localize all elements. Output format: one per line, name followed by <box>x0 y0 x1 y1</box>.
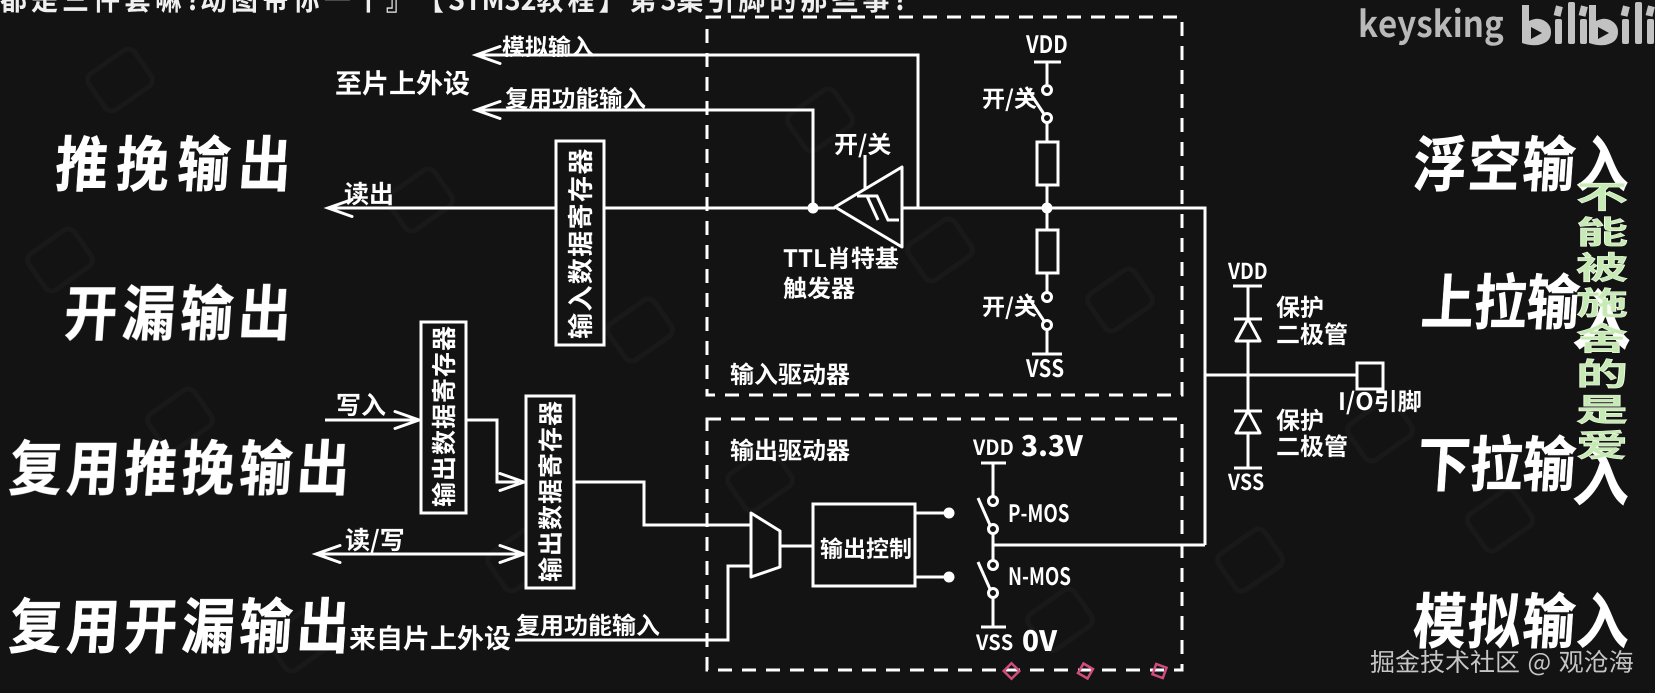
label 推挽输出 <box>55 135 289 192</box>
VSS rail symbol (protection) <box>1234 467 1262 470</box>
label 开漏输出 <box>65 284 289 341</box>
green vertical caption 不能被施舍的是爱 <box>1577 183 1627 459</box>
label 下拉输(入) <box>1418 434 1577 491</box>
label TTL肖特基 <box>784 247 899 270</box>
label 保护 (upper) <box>1276 296 1322 319</box>
arrowhead 读出 <box>328 200 352 217</box>
diode D1 (upper protection 保护二极管) <box>1234 319 1262 341</box>
resistor R1 (pull-up) <box>1037 142 1058 185</box>
label 输出数据寄存器 (box2 rotated) <box>538 401 562 581</box>
clipped video title (top edge) <box>0 0 906 13</box>
wire: box2 to mux input <box>574 482 751 525</box>
I/O pin pad square <box>1357 363 1383 389</box>
label 写入 <box>338 393 386 416</box>
selection handle diamond 1 <box>1004 663 1167 679</box>
output data register box 1 (输出数据寄存器) <box>421 322 466 513</box>
input driver dashed box <box>707 17 1182 395</box>
arrowhead into box2 <box>500 474 524 491</box>
selection handle diamond 2 <box>1078 663 1093 678</box>
label 读出 <box>345 182 392 206</box>
power label VSS (output stage) <box>976 634 1013 650</box>
junction dot: schmitt output / AF input node <box>808 203 819 214</box>
power label VDD (protection) <box>1228 263 1267 279</box>
wire R1 to pad node <box>1046 185 1049 230</box>
label 输出驱动器 <box>731 438 850 461</box>
label 读/写 <box>346 528 403 554</box>
VDD rail symbol (output stage) <box>981 463 1006 496</box>
wire: N-MOS to VSS <box>992 597 995 627</box>
wire: pad net from schmitt input to I/O column <box>902 208 1205 545</box>
selection handle diamond 3 <box>1152 664 1166 678</box>
diode D2 (lower protection 保护二极管) <box>1247 375 1250 411</box>
VSS rail symbol (pull-down) <box>1032 353 1062 356</box>
label 输入驱动器 <box>731 362 850 385</box>
value label 3.3V <box>1022 435 1083 457</box>
bilibili logo <box>1522 2 1655 45</box>
wire S1 to R1 <box>1046 122 1049 142</box>
label 输入数据寄存器 (rotated) <box>568 149 593 338</box>
label 触发器 <box>784 276 855 299</box>
power label VDD (pull-up) <box>1026 35 1067 53</box>
hysteresis symbol inside U1 <box>857 196 899 220</box>
arrowhead 读/写 right <box>500 546 524 563</box>
output driver dashed box <box>707 419 1182 670</box>
arrowhead analog input <box>476 47 500 64</box>
label 二极管 (lower) <box>1277 434 1347 457</box>
label 复用功能输入 (bottom) <box>517 613 660 636</box>
label 复用推挽输出 <box>9 439 347 496</box>
label 开/关 (S2) <box>983 295 1036 319</box>
resistor R2 (pull-down) <box>1037 230 1058 273</box>
VDD rail symbol (pull-up) <box>1034 62 1061 84</box>
arrowhead 读/写 left <box>316 546 340 563</box>
VSS rail symbol (output stage) <box>981 626 1006 629</box>
wire: analog input (模拟输入) <box>478 55 918 208</box>
power label VSS (pull-down) <box>1026 359 1063 377</box>
wire: P-MOS to output node <box>992 533 995 561</box>
wire: alternate function input to peripherals (复用功能输入) <box>478 110 813 208</box>
wire: gate drive to N-MOS <box>915 576 946 579</box>
schmitt trigger U1 (TTL肖特基触发器) <box>835 167 902 247</box>
label 来自片上外设 <box>350 625 511 651</box>
wire: I/O pad horizontal <box>1205 374 1357 377</box>
label 上拉输(入) <box>1422 272 1581 329</box>
switch S1 (pull-up enable 开/关) <box>1043 86 1052 95</box>
label 复用功能输入 (top arrow) <box>506 87 646 109</box>
arrowhead 写入 into output data register <box>395 412 419 429</box>
label 输出控制 <box>821 537 911 559</box>
wire: read/write line (读/写) <box>320 553 522 556</box>
value label 0V <box>1023 630 1057 652</box>
transistor Q2 N-MOS (switch symbol) <box>989 561 998 570</box>
label 开/关 (S1) <box>983 87 1036 111</box>
VDD rail symbol (protection) <box>1233 286 1262 319</box>
input data register (输入数据寄存器) <box>556 141 604 345</box>
junction dot: N-MOS gate <box>944 572 955 583</box>
label 输出数据寄存器 (box1 rotated) <box>432 326 456 506</box>
wire: read-out line (读出) from schmitt output <box>330 207 835 210</box>
label 开/关 (schmitt enable) <box>835 133 891 158</box>
transistor Q1 P-MOS (switch symbol) <box>989 497 998 506</box>
label 入 of 下拉输入 <box>1573 446 1633 505</box>
switch S2 (pull-down enable 开/关) <box>1043 293 1052 302</box>
keysking watermark <box>1361 8 1504 46</box>
label 至片上外设 <box>336 70 469 96</box>
power label VDD (output stage) <box>973 439 1013 455</box>
label 浮空输入 <box>1413 134 1631 191</box>
switch control line into U1 (开/关) <box>864 155 867 189</box>
label I/O引脚 <box>1340 390 1420 414</box>
label P-MOS <box>1010 504 1069 522</box>
junction dot: pad node on pull chain <box>1042 203 1053 214</box>
wire: output node to I/O column <box>993 544 1205 547</box>
wire S2 to VSS <box>1046 329 1049 354</box>
footer 掘金技术社区@观沧海 <box>1371 650 1633 676</box>
label 入 of 上拉输入 <box>1573 288 1634 349</box>
wire: gate drive to P-MOS <box>915 512 946 515</box>
wire: alternate function input from peripheral <box>515 566 751 640</box>
power label VSS (protection) <box>1228 473 1264 490</box>
wire: mux output to output control <box>780 545 813 548</box>
wire: write line (写入) <box>325 419 415 422</box>
output control block (输出控制) <box>813 504 915 586</box>
label 模拟输入 (top arrow) <box>502 35 593 57</box>
junction dot: P-MOS gate <box>944 508 955 519</box>
label N-MOS <box>1010 567 1071 585</box>
label 二极管 (upper) <box>1277 322 1347 345</box>
label 保护 (lower) <box>1276 409 1322 432</box>
label 模拟输入 (right) <box>1413 592 1631 649</box>
mux U2 (output source select) <box>751 513 780 577</box>
output data register box 2 (输出数据寄存器) <box>526 396 574 588</box>
label 复用开漏输出 <box>9 597 347 654</box>
wire: box1 to box2 elbow <box>466 420 519 482</box>
arrowhead alt function input <box>476 102 500 119</box>
wire R2 to S2 <box>1046 273 1049 293</box>
